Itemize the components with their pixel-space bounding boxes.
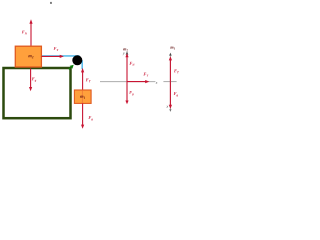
force arrow F_N on m2 — [30, 23, 32, 46]
fbd1 label F_T — [143, 73, 148, 77]
fbd1 x-axis — [100, 81, 155, 83]
fbd1 label m2 — [123, 48, 128, 51]
weight arrow F_g of m1 — [82, 103, 84, 125]
fbd2 x-axis (vertical) — [169, 55, 171, 110]
table — [4, 68, 71, 118]
string seen through block m1 — [81, 91, 83, 103]
fbd2 force F_g — [169, 82, 171, 106]
weight arrow F_g of m2 (inside table) — [30, 69, 32, 88]
pulley support arrow (green) — [69, 68, 70, 69]
label F_T (m1) — [86, 78, 91, 82]
fbd2 y-axis arrowhead (top) — [169, 53, 172, 56]
block m1 — [74, 90, 91, 103]
label F_N — [22, 31, 27, 35]
fbd1 force F_g — [126, 82, 128, 101]
string horizontal segment — [42, 55, 80, 57]
fbd1 force F_T — [127, 81, 146, 83]
fbd1 y-axis arrowhead — [126, 51, 129, 54]
fbd1 x-axis label — [156, 82, 158, 84]
force arrow F_T on m2 — [42, 55, 61, 57]
block m2 — [15, 46, 41, 67]
tension arrow F_T on m1 — [82, 72, 84, 90]
string vertical segment — [81, 60, 83, 69]
fbd2 force F_T — [169, 60, 171, 82]
pulley — [72, 55, 82, 65]
fbd2 x-axis arrowhead (bottom) — [169, 109, 171, 112]
fbd1 y-axis label — [123, 52, 125, 55]
label F_T (m2) — [54, 47, 59, 51]
label m2 (block) — [28, 55, 33, 58]
label m1 (block) — [80, 96, 85, 99]
fbd2 label m1 — [170, 47, 174, 50]
fbd2 label F_g — [174, 92, 178, 97]
fbd1 force F_N — [126, 57, 128, 82]
fbd2 y-axis (horizontal) — [163, 81, 176, 83]
fbd1 label F_g — [129, 91, 133, 96]
fbd1 label F_N — [129, 62, 134, 66]
label x (scene top) — [50, 2, 52, 4]
label F_g (m1) — [88, 116, 92, 121]
fbd2 label F_T — [174, 69, 179, 73]
label F_g (m2) — [32, 77, 36, 82]
fbd2 x-axis label — [166, 106, 168, 108]
